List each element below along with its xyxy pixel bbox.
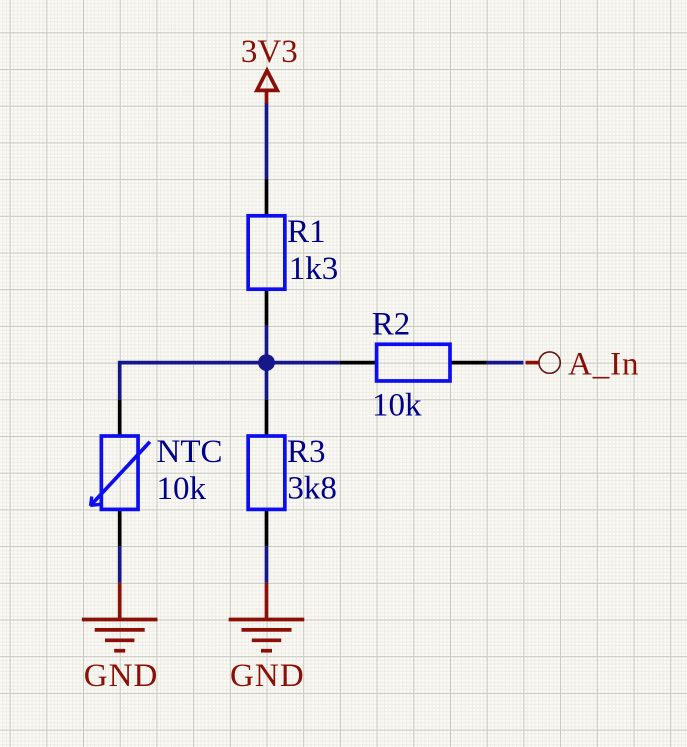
svg-text:GND: GND xyxy=(84,658,159,694)
svg-text:R3: R3 xyxy=(287,434,326,470)
svg-text:10k: 10k xyxy=(372,388,422,424)
svg-text:NTC: NTC xyxy=(157,434,223,470)
svg-text:1k3: 1k3 xyxy=(289,251,339,287)
svg-text:GND: GND xyxy=(230,658,305,694)
svg-text:3k8: 3k8 xyxy=(287,471,337,507)
svg-text:R1: R1 xyxy=(287,214,326,250)
svg-text:A_In: A_In xyxy=(568,346,639,382)
svg-text:R2: R2 xyxy=(372,306,411,342)
svg-text:3V3: 3V3 xyxy=(241,34,298,70)
svg-text:10k: 10k xyxy=(157,471,207,507)
